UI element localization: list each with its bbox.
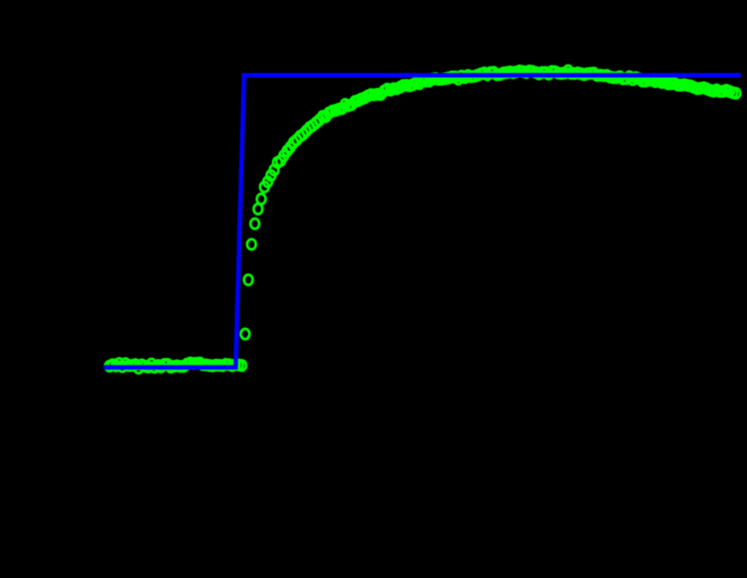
blue ideal step line <box>104 75 741 367</box>
green measured-response markers <box>105 65 740 373</box>
